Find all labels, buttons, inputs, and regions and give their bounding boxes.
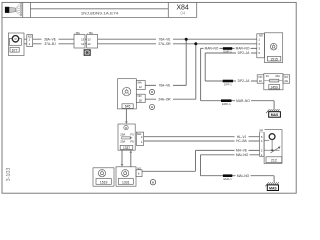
vertical drop to ground G2 <box>273 176 275 183</box>
hatched connector symbol <box>84 50 90 56</box>
stub NO 2G right <box>283 75 290 83</box>
svg-text:F9: F9 <box>130 139 134 143</box>
label box 1515 <box>267 56 280 61</box>
stub NO of 645 <box>136 94 145 102</box>
svg-text:MAS: MAS <box>271 113 279 117</box>
label 37A-BJ <box>42 42 59 46</box>
svg-text:EMR-1: EMR-1 <box>223 50 232 54</box>
page border frame <box>2 2 296 193</box>
circled letter K <box>149 104 154 109</box>
label HC-BA <box>235 139 249 143</box>
label 76A-VE row1 <box>156 37 173 41</box>
vertical pin1 to ground row <box>200 155 202 176</box>
svg-text:76A–VE: 76A–VE <box>159 84 171 88</box>
circled glyph 1337 <box>124 125 128 129</box>
splice EMR-A <box>221 99 232 102</box>
vertical 1331 to 1337 up <box>130 152 132 167</box>
label 27A-OR row1 <box>156 42 173 46</box>
sender symbol 212 <box>264 140 280 154</box>
stub NO of 677 <box>24 35 33 47</box>
label MAI-NO pin1 <box>235 153 250 157</box>
symbol circle 1515 <box>270 43 277 50</box>
stub MA of 1337 <box>136 132 143 145</box>
label box 212 <box>266 157 282 163</box>
svg-text:EMA-1: EMA-1 <box>223 177 232 181</box>
svg-text:EMR-A: EMR-A <box>222 102 231 106</box>
svg-text:12: 12 <box>81 42 85 46</box>
svg-text:25A: 25A <box>120 133 125 137</box>
svg-text:28: 28 <box>139 98 143 102</box>
svg-text:24A–OR: 24A–OR <box>158 97 171 101</box>
wire DP2-JA lower <box>205 80 257 82</box>
arrow up into 1337 bottom <box>130 150 133 153</box>
box 677 <box>8 33 24 56</box>
label DP2-JA upper <box>236 51 251 55</box>
pump housing <box>9 39 21 46</box>
svg-text:1515: 1515 <box>270 57 278 61</box>
wire 1331 to corner <box>142 170 196 172</box>
svg-text:MH–VE: MH–VE <box>236 149 247 153</box>
label 76A-VE 645 <box>156 83 173 87</box>
vertical 1337 to 1331 down <box>121 150 123 165</box>
fuse element 2459 <box>264 80 283 82</box>
svg-text:15A: 15A <box>275 74 280 78</box>
stub NO 10 left <box>257 75 264 83</box>
svg-text:3-103: 3-103 <box>6 168 12 182</box>
stub NO of 1331 <box>136 170 142 177</box>
wire HC-BA <box>144 140 260 142</box>
label HL-VJ <box>235 135 249 139</box>
label box 1337 <box>120 145 133 149</box>
connector left half <box>74 35 85 49</box>
svg-text:2459: 2459 <box>271 85 278 89</box>
svg-text:1337: 1337 <box>123 146 130 150</box>
label MAR-NO ground row <box>235 99 251 103</box>
svg-text:F3: F3 <box>130 133 134 137</box>
label MAR-NO right <box>235 46 251 50</box>
svg-text:10: 10 <box>259 79 263 83</box>
svg-text:677: 677 <box>12 48 18 52</box>
svg-text:37A–BJ: 37A–BJ <box>44 42 56 46</box>
vertical 645 to fusebox 1337 <box>125 109 127 123</box>
svg-text:13: 13 <box>87 37 91 41</box>
svg-text:212: 212 <box>271 158 277 162</box>
svg-text:MAS: MAS <box>269 186 277 190</box>
vertical 1331 to pin2 <box>195 150 197 171</box>
wire MAR-NO lower to ground <box>201 100 275 102</box>
box 2459 <box>264 74 283 90</box>
svg-text:MAR–NO: MAR–NO <box>236 47 250 51</box>
svg-text:DP2–JA: DP2–JA <box>238 51 251 55</box>
motor circle 212 <box>269 134 275 140</box>
svg-text:MA: MA <box>138 81 142 85</box>
svg-text:2G: 2G <box>284 79 288 83</box>
wire 37A-BJ / 27A-OR row1 bottom <box>33 43 74 45</box>
box 212 <box>264 130 282 164</box>
label DP2-JA lower <box>236 79 251 83</box>
svg-text:MAR–NO: MAR–NO <box>236 99 250 103</box>
svg-text:12: 12 <box>87 42 91 46</box>
wire MH-VE <box>196 149 260 151</box>
label 24A-OR 645 <box>156 97 173 101</box>
motor circle 677 <box>12 36 18 42</box>
junction dot A <box>185 38 188 41</box>
label box 2459 <box>269 85 280 89</box>
wire MAI-NO upper <box>201 154 260 156</box>
fuse bar symbol 1337 <box>122 137 131 139</box>
harness connector icon <box>5 3 22 16</box>
svg-text:1331: 1331 <box>122 180 130 184</box>
wire link between halves <box>85 38 87 40</box>
label box 677 <box>10 47 19 52</box>
svg-text:HC–BA: HC–BA <box>236 139 248 143</box>
strip GR of 212 <box>260 132 265 156</box>
symbol circle 645 <box>122 87 130 95</box>
wire HL-VJ <box>144 136 260 138</box>
box 1515 <box>265 33 283 63</box>
label 36A-VE <box>42 37 59 41</box>
vertical junction drop V1 <box>185 39 187 85</box>
svg-text:BA: BA <box>89 31 93 35</box>
circled letter H <box>149 89 154 94</box>
junction dot B <box>194 42 197 45</box>
svg-text:MAI–NO: MAI–NO <box>237 174 250 178</box>
label MH-VE <box>235 148 249 152</box>
box 1337 <box>118 124 135 150</box>
vertical DP2-JA link V4 <box>204 53 206 81</box>
strip NO of 1515 <box>257 34 265 58</box>
label MAI-NO ground row <box>236 174 251 178</box>
arrow into 1337 <box>125 121 128 124</box>
svg-text:25A: 25A <box>120 139 125 143</box>
svg-text:GR: GR <box>259 129 263 133</box>
box 645 <box>118 79 137 109</box>
svg-text:36A–VE: 36A–VE <box>44 37 56 41</box>
wire 76A-VE to 645 pin12 <box>145 84 186 86</box>
svg-text:645: 645 <box>125 105 131 109</box>
svg-text:DP2–JA: DP2–JA <box>238 79 251 83</box>
svg-text:12: 12 <box>139 85 143 89</box>
wire MAR-NO upper <box>201 47 257 49</box>
vertical drop to ground G1 <box>273 101 275 110</box>
connector right half <box>87 35 98 49</box>
svg-text:MAR–NO: MAR–NO <box>205 47 219 51</box>
stub MA of 645 <box>136 81 145 90</box>
svg-text:13: 13 <box>81 37 85 41</box>
splice EMA-1 <box>223 174 232 177</box>
svg-text:76A–VE: 76A–VE <box>159 37 171 41</box>
wire MAI-NO ground row <box>201 175 275 177</box>
circled letter A bottom <box>150 180 155 185</box>
vertical junction drop V2 <box>195 44 197 99</box>
svg-text:1519: 1519 <box>100 180 108 184</box>
svg-text:1NJ.8DN9.1A.E74: 1NJ.8DN9.1A.E74 <box>81 10 119 15</box>
wire 24A-OR to 645 pin28 <box>145 98 196 100</box>
svg-text:27A–OR: 27A–OR <box>158 42 171 46</box>
wire DP2-JA upper <box>205 52 257 54</box>
label box 645 <box>122 104 133 109</box>
splice EMR-1 <box>223 47 232 50</box>
splice DPF-1 <box>223 80 233 83</box>
title block header <box>2 2 197 17</box>
svg-text:M: M <box>15 38 17 41</box>
svg-text:NO: NO <box>137 166 141 170</box>
svg-text:BA: BA <box>76 31 80 35</box>
svg-text:04: 04 <box>180 11 186 16</box>
arrow into 1331 <box>121 164 124 167</box>
wire 36A-VE / 76A-VE row1 top <box>33 38 74 40</box>
label MAR-NO left <box>204 46 220 50</box>
svg-text:DPF-1: DPF-1 <box>224 83 232 87</box>
vertical MAR-NO link V3 <box>200 48 202 100</box>
svg-text:MAI–NO: MAI–NO <box>236 153 249 157</box>
